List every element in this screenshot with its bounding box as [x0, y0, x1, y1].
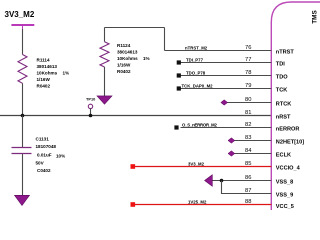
wire VSS_8 to VSS_9 elbow	[222, 181, 272, 194]
ground below C1131	[15, 195, 30, 205]
svg-text:TDI_P77: TDI_P77	[186, 57, 204, 62]
svg-text:N2HET[10]: N2HET[10]	[276, 140, 304, 146]
pin 79 TCK	[177, 83, 288, 94]
pin 82 nERROR	[174, 122, 299, 133]
svg-text:1/16W: 1/16W	[37, 77, 51, 82]
wire 3V3 to R1114 top	[22, 29, 24, 55]
svg-text:87: 87	[245, 188, 251, 194]
svg-text:nRST: nRST	[276, 115, 291, 121]
svg-text:1%: 1%	[143, 56, 150, 61]
svg-text:C1131: C1131	[36, 137, 50, 142]
power symbol 3V3_M2	[5, 10, 35, 30]
pin 83 N2HET[10]	[228, 135, 304, 146]
svg-text:O_S_nERROR_M2: O_S_nERROR_M2	[182, 122, 217, 127]
svg-text:TCK: TCK	[276, 88, 288, 94]
resistor R1124	[100, 42, 150, 74]
svg-text:TCK_DAP0_M2: TCK_DAP0_M2	[182, 83, 214, 88]
svg-text:C0402: C0402	[37, 168, 51, 173]
svg-text:TDO_P78: TDO_P78	[186, 70, 206, 75]
svg-text:R0402: R0402	[117, 69, 131, 74]
svg-text:0.01uF: 0.01uF	[37, 153, 52, 158]
svg-text:TDI: TDI	[276, 62, 285, 68]
capacitor C1131	[12, 137, 66, 174]
svg-text:83: 83	[245, 135, 251, 141]
svg-text:80: 80	[245, 97, 251, 103]
junction at test point	[89, 114, 93, 118]
svg-text:ECLK: ECLK	[276, 153, 291, 159]
svg-text:nERROR: nERROR	[276, 127, 300, 133]
ground arrow (left) for VSS	[205, 175, 213, 187]
svg-text:RTCK: RTCK	[276, 102, 292, 108]
pin 84 ECLK	[228, 148, 291, 159]
svg-text:R0402: R0402	[37, 84, 51, 89]
pin 77 TDI	[177, 57, 286, 68]
wire C1131 bottom to ground	[22, 154, 24, 195]
svg-text:10Kohms: 10Kohms	[117, 56, 138, 61]
svg-text:18107048: 18107048	[36, 144, 57, 149]
svg-text:82: 82	[245, 122, 251, 128]
svg-text:nTRST_M2: nTRST_M2	[185, 45, 208, 50]
wire riser down to pin 76 row	[164, 28, 166, 51]
svg-text:nTRST: nTRST	[276, 50, 295, 56]
svg-text:78: 78	[245, 70, 251, 76]
svg-text:77: 77	[245, 57, 251, 63]
svg-text:38014613: 38014613	[37, 64, 58, 69]
svg-text:38014613: 38014613	[117, 50, 138, 55]
pin 80 RTCK	[221, 97, 292, 108]
pin 87 VSS_9	[245, 188, 293, 199]
svg-text:10%: 10%	[56, 154, 65, 159]
svg-text:86: 86	[245, 175, 251, 181]
wire top horizontal R1124 to riser	[105, 27, 165, 29]
resistor R1114	[18, 55, 69, 89]
svg-text:3V3_M2: 3V3_M2	[5, 10, 35, 19]
ground below R1124	[97, 96, 112, 104]
svg-text:VCC_5: VCC_5	[276, 204, 294, 210]
pin 88 VCC_5 (1V25_M2 power wire)	[131, 199, 294, 210]
pin 76 nTRST	[165, 45, 295, 56]
wire nRST long horizontal line to pin 81	[0, 115, 271, 117]
pin 86 VSS_8	[212, 175, 293, 186]
svg-text:76: 76	[245, 45, 251, 51]
wire nRST line to C1131 top	[22, 116, 24, 148]
junction at R1114 / C1131	[21, 114, 25, 118]
junction VSS tie	[220, 179, 224, 183]
svg-text:VSS_8: VSS_8	[276, 180, 293, 186]
wire R1114 bottom to nRST line	[22, 83, 24, 115]
svg-text:VSS_9: VSS_9	[276, 193, 293, 199]
svg-text:88: 88	[245, 199, 251, 205]
svg-text:1%: 1%	[63, 71, 70, 76]
svg-text:TMS: TMS	[312, 10, 319, 24]
svg-text:TDO: TDO	[276, 75, 288, 81]
pin 85 VCCIO_4 (3V3_M2 power wire)	[131, 161, 301, 172]
svg-text:79: 79	[245, 83, 251, 89]
svg-text:R1114: R1114	[37, 58, 50, 63]
svg-text:85: 85	[245, 161, 251, 167]
svg-text:1V25_M2: 1V25_M2	[188, 199, 207, 204]
svg-text:TP10: TP10	[86, 96, 95, 101]
svg-text:10Kohms: 10Kohms	[37, 71, 58, 76]
svg-text:1/16W: 1/16W	[117, 63, 131, 68]
svg-text:81: 81	[245, 110, 251, 116]
IC U1 body outline	[271, 2, 320, 210]
wire R1124 top	[104, 28, 106, 42]
svg-text:3V3_M2: 3V3_M2	[188, 161, 205, 166]
wire R1124 bottom to ground	[104, 67, 106, 96]
svg-text:84: 84	[245, 148, 252, 154]
svg-text:VCCIO_4: VCCIO_4	[276, 166, 301, 172]
pin 81 nRST	[245, 110, 291, 121]
svg-text:50V: 50V	[36, 161, 45, 166]
test point TP10	[86, 96, 95, 115]
pin 78 TDO	[177, 70, 289, 81]
svg-text:R1124: R1124	[117, 43, 131, 48]
